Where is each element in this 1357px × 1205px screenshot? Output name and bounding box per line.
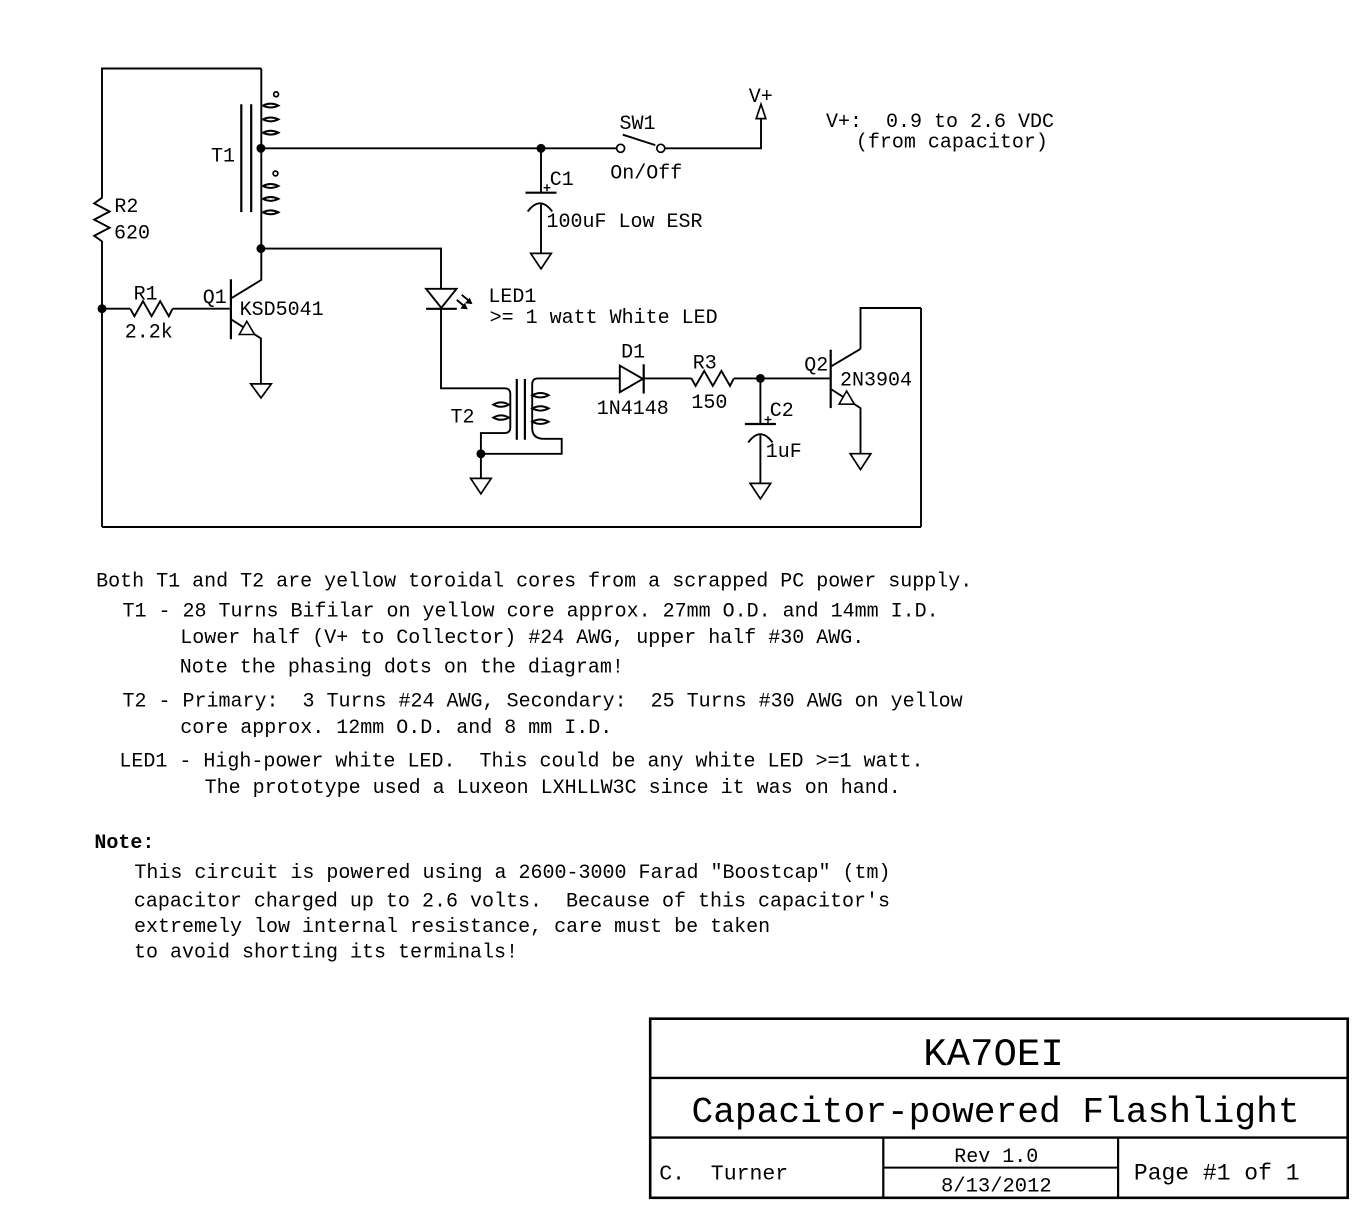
svg-text:Both T1 and T2 are yellow toro: Both T1 and T2 are yellow toroidal cores… xyxy=(96,570,972,593)
svg-text:SW1: SW1 xyxy=(620,113,656,136)
transformer T2 primary winding xyxy=(481,388,510,454)
ground below Q2 xyxy=(850,454,871,470)
transformer T1 lower winding xyxy=(261,148,278,248)
transistor Q1 collector xyxy=(232,249,261,298)
wire T2 secondary to D1 xyxy=(538,377,620,379)
svg-text:T2 - Primary: 3 Turns #24 AWG: T2 - Primary: 3 Turns #24 AWG, Secondary… xyxy=(123,691,963,714)
svg-text:Lower half (V+ to Collector) #: Lower half (V+ to Collector) #24 AWG, up… xyxy=(180,627,864,650)
svg-text:1N4148: 1N4148 xyxy=(597,398,669,421)
svg-text:2.2k: 2.2k xyxy=(125,321,173,344)
svg-text:Q1: Q1 xyxy=(203,287,227,310)
wire bottom rail xyxy=(102,526,921,528)
title block rev/date divider xyxy=(883,1167,1118,1169)
node T1 bottom junction xyxy=(257,245,264,252)
svg-text:T2: T2 xyxy=(451,407,475,430)
transistor Q1 base bar xyxy=(230,279,232,339)
switch SW1 xyxy=(617,135,665,153)
title block divider row1/row2 xyxy=(650,1077,1347,1079)
svg-text:2N3904: 2N3904 xyxy=(840,370,912,393)
power V+ arrow xyxy=(756,104,766,118)
title block divider row2/row3 xyxy=(650,1136,1347,1138)
ground below T2 xyxy=(471,478,492,493)
svg-text:V+: V+ xyxy=(749,86,773,109)
svg-text:100uF Low ESR: 100uF Low ESR xyxy=(547,211,703,234)
svg-text:T1 - 28 Turns Bifilar on yello: T1 - 28 Turns Bifilar on yellow core app… xyxy=(123,601,939,624)
svg-text:T1: T1 xyxy=(211,146,235,169)
ground below C1 xyxy=(531,253,552,269)
svg-text:Note:: Note: xyxy=(94,832,154,855)
node T1 center tap junction xyxy=(257,145,264,152)
svg-text:C. Turner: C. Turner xyxy=(659,1162,788,1186)
transistor Q2 emitter xyxy=(832,390,861,454)
svg-text:LED1: LED1 xyxy=(488,286,536,309)
svg-text:620: 620 xyxy=(114,222,150,245)
svg-text:This circuit is powered using: This circuit is powered using a 2600-300… xyxy=(134,862,890,885)
resistor R3 xyxy=(691,371,733,386)
svg-text:core approx. 12mm O.D. and 8 m: core approx. 12mm O.D. and 8 mm I.D. xyxy=(180,717,612,740)
transformer T1 upper winding xyxy=(261,69,278,149)
svg-text:C2: C2 xyxy=(770,400,794,423)
node T2 bottom junction xyxy=(477,450,484,457)
node C1 junction xyxy=(538,145,545,152)
svg-text:(from capacitor): (from capacitor) xyxy=(856,131,1048,154)
transistor Q2 collector xyxy=(832,349,861,366)
svg-text:On/Off: On/Off xyxy=(610,163,682,186)
svg-text:C1: C1 xyxy=(550,169,574,192)
svg-text:D1: D1 xyxy=(621,341,645,364)
wire top-right to Q2 collector xyxy=(861,308,922,349)
wire D1 to R3 xyxy=(644,377,692,379)
ground below Q1 xyxy=(251,384,272,398)
wire right edge rail xyxy=(920,308,922,527)
transistor Q2 base bar xyxy=(830,350,832,408)
svg-text:Q2: Q2 xyxy=(804,355,828,378)
resistor R2 xyxy=(94,198,109,242)
transformer T2 secondary winding xyxy=(532,378,548,438)
title block column divider 2 xyxy=(1117,1138,1119,1198)
wire T1 bottom to LED1 xyxy=(261,249,441,289)
T1 lower winding phasing dot xyxy=(273,171,278,176)
transformer T1 core xyxy=(241,104,251,212)
diode D1 xyxy=(620,364,644,393)
wire switch to V+ xyxy=(665,119,761,149)
wire left rail below R2 xyxy=(101,241,103,527)
wire center tap to switch xyxy=(261,147,616,149)
svg-text:R1: R1 xyxy=(134,283,158,306)
wire LED1 to T2 primary xyxy=(441,309,505,388)
T1 upper winding phasing dot xyxy=(274,92,279,97)
svg-text:to avoid shorting its terminal: to avoid shorting its terminals! xyxy=(134,942,518,965)
transformer T2 core xyxy=(517,379,525,440)
capacitor C2 xyxy=(745,378,776,483)
wire T2 junction to ground xyxy=(480,454,482,479)
svg-text:Note the phasing dots on the d: Note the phasing dots on the diagram! xyxy=(180,656,624,679)
svg-text:150: 150 xyxy=(691,392,727,415)
svg-text:R3: R3 xyxy=(693,352,717,375)
svg-text:The prototype used a Luxeon LX: The prototype used a Luxeon LXHLLW3C sin… xyxy=(205,777,901,800)
wire R1 to Q1 base xyxy=(173,308,230,310)
svg-text:1uF: 1uF xyxy=(766,441,802,464)
svg-text:>= 1 watt White LED: >= 1 watt White LED xyxy=(490,307,718,330)
wire R3 to Q2 base xyxy=(734,377,830,379)
transistor Q1 emitter xyxy=(232,320,261,384)
LED LED1 xyxy=(426,289,472,309)
svg-text:Capacitor-powered Flashlight: Capacitor-powered Flashlight xyxy=(692,1092,1300,1133)
title block column divider 1 xyxy=(882,1138,884,1198)
svg-text:LED1 - High-power white LED.: LED1 - High-power white LED. This could … xyxy=(119,751,923,774)
svg-text:R2: R2 xyxy=(114,196,138,219)
svg-text:extremely low internal resista: extremely low internal resistance, care … xyxy=(134,916,770,939)
resistor R1 xyxy=(102,301,173,316)
ground below C2 xyxy=(750,483,771,499)
svg-text:Page #1 of 1: Page #1 of 1 xyxy=(1134,1161,1300,1187)
svg-text:capacitor charged up to 2.6 vo: capacitor charged up to 2.6 volts. Becau… xyxy=(134,891,890,914)
svg-text:KA7OEI: KA7OEI xyxy=(923,1033,1063,1077)
svg-text:8/13/2012: 8/13/2012 xyxy=(941,1175,1052,1198)
node C2 junction xyxy=(757,375,764,382)
capacitor C1 xyxy=(526,148,557,253)
wire V+ top rail (left rail top to T1 primary top) xyxy=(102,69,261,199)
node R1 junction on left rail xyxy=(99,305,106,312)
title block outer border xyxy=(650,1019,1347,1198)
svg-text:KSD5041: KSD5041 xyxy=(240,299,324,322)
wire T2 secondary bottom return xyxy=(481,439,562,454)
svg-text:Rev 1.0: Rev 1.0 xyxy=(954,1146,1038,1169)
